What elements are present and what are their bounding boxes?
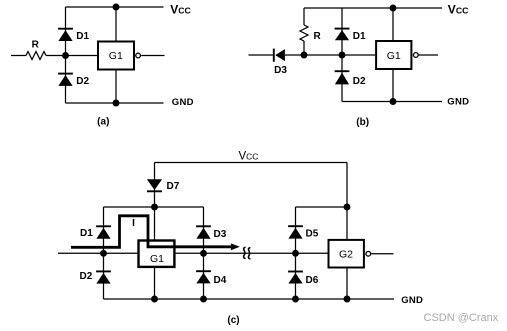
svg-text:D3: D3 [274, 65, 287, 76]
svg-text:G2: G2 [339, 249, 353, 261]
wire main signal line (c) [58, 252, 328, 254]
node G1 GND junction (c) [151, 296, 158, 303]
svg-text:G1: G1 [387, 50, 401, 62]
resistor R (a) [26, 52, 46, 60]
diode D3 (b) [274, 49, 285, 62]
svg-text:GND: GND [401, 295, 423, 306]
svg-text:D6: D6 [306, 275, 319, 286]
svg-text:(a): (a) [97, 117, 109, 128]
wire VCC rail (a) [66, 6, 164, 8]
wire node to gate (a) [46, 55, 97, 57]
wire D1 D2 branch vertical (c) [103, 207, 105, 299]
svg-text:GND: GND [447, 97, 469, 108]
wire top clamp line right (c) [296, 206, 348, 208]
wire GND rail (a) [66, 102, 164, 104]
node GND junction (b) [390, 98, 397, 105]
wire diode branch vertical (b) [341, 8, 343, 102]
diode D1 (a) [58, 29, 73, 41]
wire D7 branch vertical (c) [154, 163, 156, 208]
node input junction (a) [62, 52, 69, 59]
diode D4 (c) [196, 271, 211, 283]
wire GND rail (c) [104, 298, 395, 300]
wire D3 D4 branch vertical (c) [203, 207, 205, 299]
svg-text:VCC: VCC [239, 151, 259, 163]
op-amp gate G1 (b) [376, 41, 411, 69]
diode D2 (a) [58, 74, 73, 86]
node D3 line junction (c) [200, 250, 207, 257]
svg-text:VCC: VCC [170, 3, 191, 17]
diode D1 (c) [96, 226, 111, 239]
node R junction (b) [301, 52, 308, 59]
wire D5 D6 branch vertical (c) [295, 207, 297, 299]
wire gate supply feed (b) [392, 8, 394, 102]
wire top clamp line left (c) [104, 206, 204, 208]
node VCC junction (b) [390, 5, 397, 12]
node D7 junction (c) [151, 204, 158, 211]
svg-text:R: R [314, 31, 322, 42]
svg-text:D2: D2 [80, 271, 93, 282]
node diode junction (b) [339, 52, 346, 59]
wire VCC rail (b) [304, 7, 442, 9]
node GND junction (a) [113, 100, 120, 107]
svg-text:D3: D3 [214, 229, 227, 240]
node G2 GND junction (c) [344, 296, 351, 303]
svg-text:GND: GND [172, 97, 194, 108]
wire diode branch vertical (a) [65, 7, 67, 103]
svg-text:D4: D4 [214, 275, 227, 286]
wire output (a) [141, 55, 164, 57]
svg-text:D5: D5 [306, 229, 319, 240]
svg-text:G1: G1 [109, 50, 123, 62]
wire diode to gate (b) [285, 54, 375, 56]
node D5 line junction (c) [292, 250, 299, 257]
svg-text:G1: G1 [150, 253, 164, 265]
svg-text:(c): (c) [227, 315, 239, 326]
svg-text:R: R [32, 40, 40, 51]
diode D3 (c) [196, 226, 211, 239]
wire input (a) [11, 55, 26, 57]
node D1 input junction (c) [100, 250, 107, 257]
op-amp gate G2 (c) [329, 240, 364, 268]
inverter bubble G1 (b) [413, 53, 418, 58]
node VCC feed junction right (c) [344, 204, 351, 211]
svg-text:D1: D1 [76, 31, 89, 42]
node D4 GND junction (c) [200, 296, 207, 303]
break squiggle (c) [244, 247, 251, 258]
op-amp gate G1 (c) [139, 241, 175, 267]
diode D7 (c) [147, 179, 162, 191]
op-amp gate G1 (a) [98, 42, 134, 70]
svg-text:D1: D1 [80, 228, 93, 239]
resistor R (b) vertical with leads [300, 8, 308, 55]
wire GND rail (b) [342, 101, 442, 103]
wire input (b) [249, 54, 274, 56]
wire G2 supply feed (c) [346, 163, 348, 300]
inverter bubble G2 (c) [366, 251, 371, 256]
svg-text:(b): (b) [356, 117, 369, 128]
svg-text:D2: D2 [76, 76, 89, 87]
wire output G2 (c) [371, 253, 393, 255]
wire G1 supply feed (c) [154, 207, 156, 299]
svg-text:I: I [132, 218, 135, 229]
wire gate supply feed (a) [115, 7, 117, 103]
node VCC junction (a) [113, 4, 120, 11]
diode D5 (c) [288, 226, 303, 238]
diode D2 (b) [335, 71, 350, 84]
wire VCC rail (c) [155, 162, 348, 164]
inverter bubble G1 (a) [136, 53, 141, 58]
arrowhead current path (c) [231, 243, 240, 250]
svg-text:D2: D2 [353, 76, 366, 87]
node D6 GND junction (c) [292, 296, 299, 303]
svg-text:VCC: VCC [448, 3, 469, 17]
wire current path thick (c) [71, 216, 233, 248]
diode D2 (c) [96, 271, 111, 283]
diode D6 (c) [288, 272, 303, 284]
svg-text:CSDN @Cranx: CSDN @Cranx [424, 312, 499, 324]
diode D1 (b) [335, 29, 350, 41]
wire output (b) [418, 54, 438, 56]
svg-text:D7: D7 [167, 181, 180, 192]
svg-text:D1: D1 [353, 31, 366, 42]
